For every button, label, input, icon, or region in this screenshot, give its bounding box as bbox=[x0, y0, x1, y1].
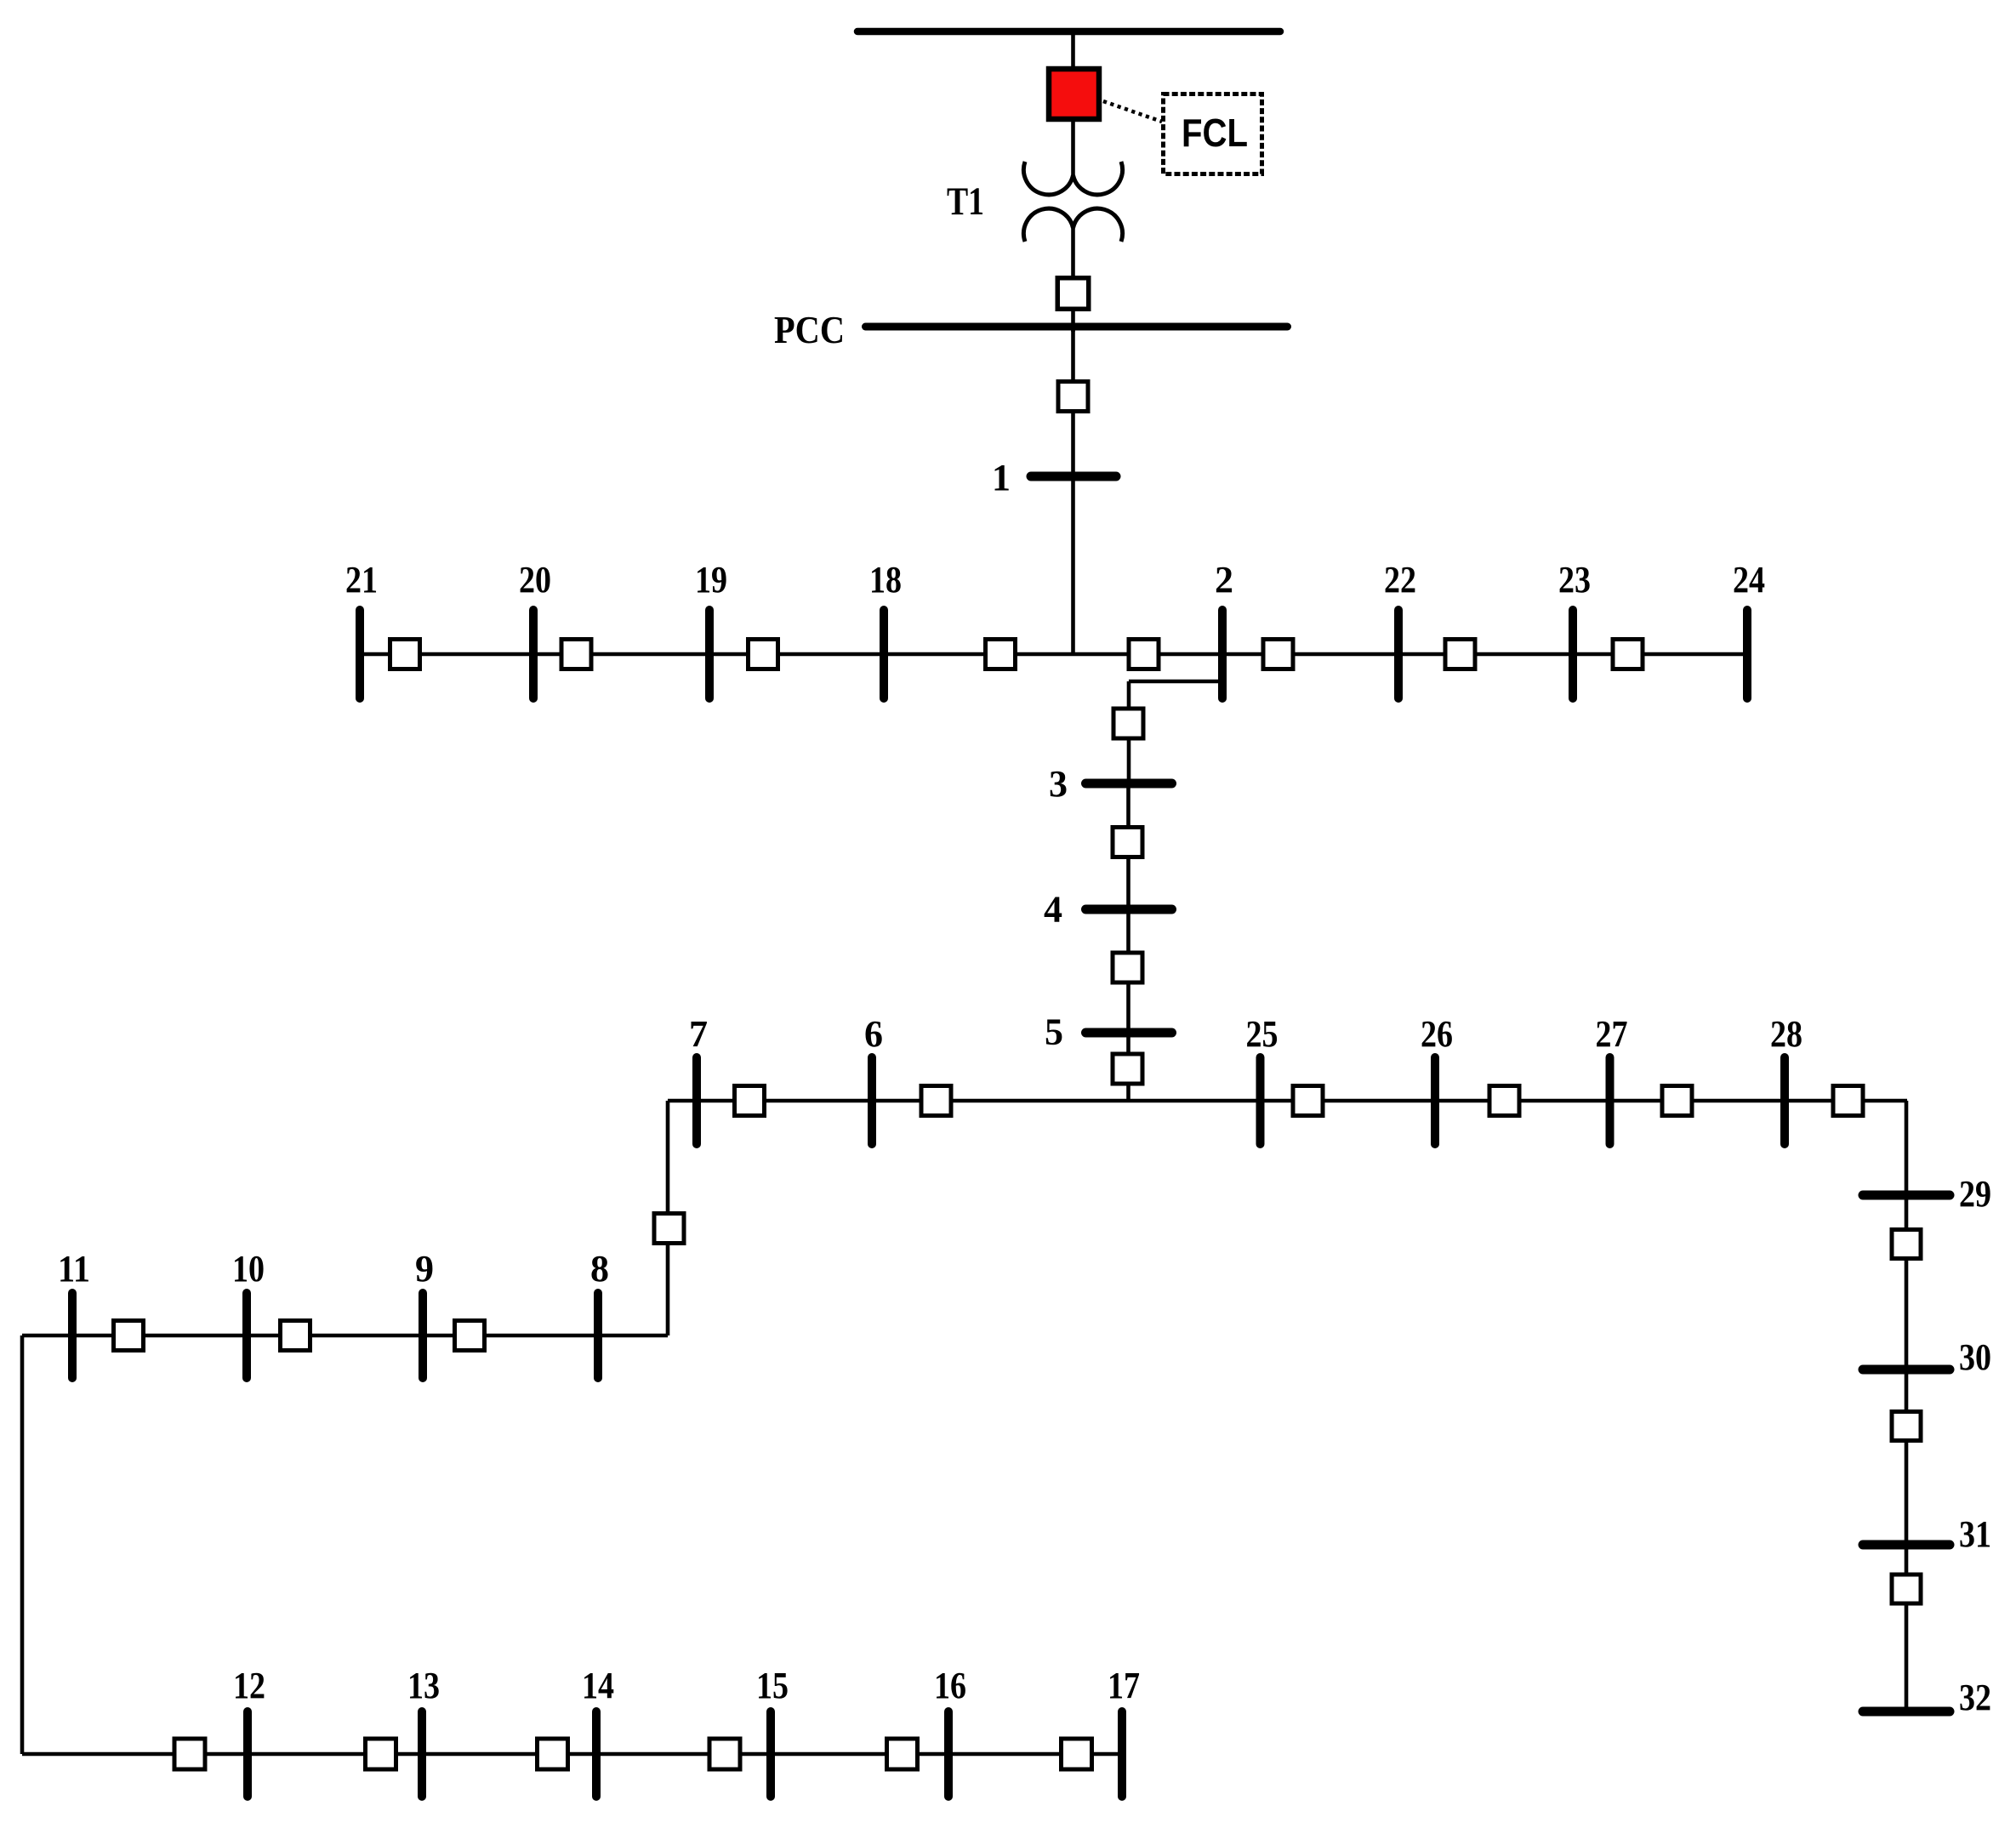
bus 32 busbar bbox=[1863, 1707, 1950, 1717]
wire from T1 secondary to breaker bbox=[1071, 228, 1075, 281]
bus 6 busbar bbox=[868, 1057, 876, 1144]
bus 20 busbar bbox=[529, 610, 538, 698]
breaker between bus 6 and junction bbox=[921, 1086, 951, 1116]
svg-text:3: 3 bbox=[1049, 763, 1068, 805]
bus 25 busbar bbox=[1256, 1057, 1265, 1144]
breaker between bus 25 and bus 26 bbox=[1293, 1086, 1323, 1116]
bus 4 busbar bbox=[1086, 905, 1172, 914]
bus 17 busbar bbox=[1118, 1711, 1126, 1797]
second feeder wire (buses 7, 6, junction, 25-28) bbox=[668, 1099, 1907, 1103]
grid source bus (top busbar) bbox=[857, 28, 1280, 36]
bus 10 busbar bbox=[242, 1293, 251, 1378]
svg-text:32: 32 bbox=[1959, 1677, 1991, 1718]
svg-text:1: 1 bbox=[992, 457, 1011, 498]
breaker between bus 7 and bus 6 bbox=[735, 1086, 765, 1116]
wire from feeder breaker to bus 1 bbox=[1071, 412, 1075, 476]
feeder circuit breaker below PCC bus bbox=[1058, 382, 1088, 412]
breaker between bus 20 and bus 19 bbox=[561, 640, 591, 669]
svg-text:11: 11 bbox=[58, 1248, 90, 1290]
bus 11 busbar bbox=[68, 1293, 77, 1378]
bus 2 busbar bbox=[1218, 610, 1227, 698]
wire from second feeder down through buses 29-32 bbox=[1905, 1101, 1909, 1711]
bus 22 busbar bbox=[1394, 610, 1403, 698]
bus 7 busbar bbox=[692, 1057, 701, 1144]
bus 23 busbar bbox=[1569, 610, 1577, 698]
bus 19 busbar bbox=[705, 610, 714, 698]
wire from FCL to transformer T1 primary bbox=[1071, 119, 1075, 175]
svg-text:5: 5 bbox=[1045, 1011, 1063, 1053]
breaker between bus 5 and second feeder bbox=[1113, 1054, 1142, 1084]
breaker between bus 22 and bus 23 bbox=[1445, 640, 1475, 669]
svg-text:28: 28 bbox=[1770, 1013, 1802, 1055]
wire from source bus to FCL bbox=[1071, 31, 1075, 69]
svg-text:27: 27 bbox=[1596, 1013, 1628, 1055]
svg-text:PCC: PCC bbox=[774, 309, 845, 351]
dotted leader line from FCL device to FCL label box bbox=[1103, 101, 1162, 122]
third feeder wire (buses 8-11) bbox=[22, 1334, 668, 1338]
svg-text:31: 31 bbox=[1959, 1513, 1991, 1555]
svg-text:FCL: FCL bbox=[1182, 111, 1248, 155]
breaker between bus 21 and bus 20 bbox=[390, 640, 420, 669]
breaker between bus 15 and bus 16 bbox=[887, 1739, 918, 1769]
svg-text:23: 23 bbox=[1558, 559, 1591, 601]
wire from breaker to PCC bus bbox=[1071, 310, 1075, 332]
FCL label box (dashed) bbox=[1164, 94, 1262, 174]
bus 28 busbar bbox=[1780, 1057, 1789, 1144]
bus 24 busbar bbox=[1743, 610, 1751, 698]
svg-text:6: 6 bbox=[864, 1013, 883, 1055]
bus 12 busbar bbox=[243, 1711, 252, 1797]
bus 15 busbar bbox=[766, 1711, 775, 1797]
svg-text:8: 8 bbox=[590, 1248, 609, 1290]
breaker between bus 18 and junction bbox=[986, 640, 1016, 669]
breaker between bus 29 and bus 30 bbox=[1892, 1230, 1921, 1259]
svg-text:10: 10 bbox=[232, 1248, 265, 1290]
bus 21 busbar bbox=[356, 610, 364, 698]
breaker between bus 27 and bus 28 bbox=[1662, 1086, 1692, 1116]
breaker between junction and bus 2 bbox=[1129, 640, 1159, 669]
svg-text:22: 22 bbox=[1384, 559, 1416, 601]
bus 16 busbar bbox=[944, 1711, 953, 1797]
breaker between bus 9 and bus 8 bbox=[455, 1321, 485, 1351]
bus 9 busbar bbox=[419, 1293, 427, 1378]
breaker between bus 4 and bus 5 bbox=[1113, 953, 1142, 982]
wire from second feeder left end down to third feeder bbox=[666, 1101, 670, 1335]
breaker between bus 23 and bus 24 bbox=[1613, 640, 1643, 669]
breaker between bus 13 and bus 14 bbox=[538, 1739, 568, 1769]
svg-text:2: 2 bbox=[1215, 559, 1233, 601]
svg-text:13: 13 bbox=[407, 1665, 440, 1706]
breaker between bus 19 and bus 18 bbox=[749, 640, 778, 669]
svg-text:26: 26 bbox=[1421, 1013, 1453, 1055]
breaker between bus 30 and bus 31 bbox=[1892, 1412, 1921, 1441]
breaker between bus 3 and bus 4 bbox=[1113, 828, 1142, 857]
breaker between bus 28 and bus 29 bbox=[1833, 1086, 1863, 1116]
svg-text:T1: T1 bbox=[947, 179, 984, 224]
svg-text:15: 15 bbox=[756, 1665, 789, 1706]
wire chain through buses 3, 4, 5 to second feeder bbox=[1126, 783, 1130, 1101]
bus 14 busbar bbox=[592, 1711, 601, 1797]
branch wire turning down toward bus 3 bbox=[1127, 681, 1131, 783]
bus 30 busbar bbox=[1863, 1365, 1950, 1375]
breaker between bus 31 and bus 32 bbox=[1892, 1575, 1921, 1603]
main feeder wire (buses 21-18, junction, 2, 22-24) bbox=[360, 652, 1747, 657]
breaker between bus 11 and bus 12 bbox=[174, 1739, 205, 1769]
svg-text:19: 19 bbox=[695, 559, 727, 601]
svg-text:21: 21 bbox=[345, 559, 378, 601]
breaker between bus 26 and bus 27 bbox=[1489, 1086, 1519, 1116]
bus 29 busbar bbox=[1863, 1191, 1950, 1200]
branch wire from bus 2 busbar going left bbox=[1129, 680, 1222, 684]
svg-text:30: 30 bbox=[1959, 1336, 1991, 1378]
bus 18 busbar bbox=[880, 610, 888, 698]
breaker between bus 14 and bus 15 bbox=[709, 1739, 740, 1769]
svg-text:18: 18 bbox=[869, 559, 902, 601]
bus 13 busbar bbox=[418, 1711, 426, 1797]
svg-text:9: 9 bbox=[415, 1248, 434, 1290]
wire from third feeder left end down to bottom feeder bbox=[20, 1335, 25, 1754]
circuit breaker between T1 and PCC bus bbox=[1057, 278, 1089, 310]
bus 1 busbar bbox=[1031, 472, 1116, 481]
svg-text:7: 7 bbox=[689, 1013, 708, 1055]
svg-text:14: 14 bbox=[582, 1665, 614, 1706]
svg-text:29: 29 bbox=[1959, 1173, 1991, 1215]
bus 5 busbar bbox=[1086, 1028, 1172, 1038]
breaker between bus 12 and bus 13 bbox=[366, 1739, 396, 1769]
transformer T1 primary winding bbox=[1023, 162, 1122, 195]
svg-text:20: 20 bbox=[519, 559, 551, 601]
breaker between bus 16 and bus 17 bbox=[1062, 1739, 1092, 1769]
svg-text:12: 12 bbox=[233, 1665, 265, 1706]
transformer T1 secondary winding bbox=[1023, 208, 1122, 242]
svg-text:24: 24 bbox=[1733, 559, 1765, 601]
svg-text:25: 25 bbox=[1246, 1013, 1279, 1055]
breaker between bus 2 and bus 22 bbox=[1263, 640, 1293, 669]
bus 31 busbar bbox=[1863, 1540, 1950, 1550]
bus 3 busbar bbox=[1086, 779, 1172, 789]
PCC busbar bbox=[866, 323, 1288, 331]
bottom feeder wire (buses 12-17) bbox=[22, 1752, 1122, 1757]
wire from PCC bus to feeder breaker bbox=[1071, 327, 1075, 383]
svg-text:4: 4 bbox=[1044, 889, 1062, 931]
breaker between bus 7 and bus 8 bbox=[654, 1214, 684, 1244]
svg-text:17: 17 bbox=[1108, 1665, 1140, 1706]
breaker between bus 2 and bus 3 bbox=[1113, 709, 1143, 738]
wire from bus 1 down to main feeder junction bbox=[1071, 476, 1075, 654]
bus 26 busbar bbox=[1431, 1057, 1439, 1144]
bus 27 busbar bbox=[1606, 1057, 1615, 1144]
FCL device (red square) bbox=[1049, 69, 1099, 119]
svg-text:16: 16 bbox=[934, 1665, 966, 1706]
breaker between bus 10 and bus 9 bbox=[281, 1321, 310, 1351]
breaker between bus 11 and bus 10 bbox=[114, 1321, 144, 1351]
bus 8 busbar bbox=[594, 1293, 602, 1378]
